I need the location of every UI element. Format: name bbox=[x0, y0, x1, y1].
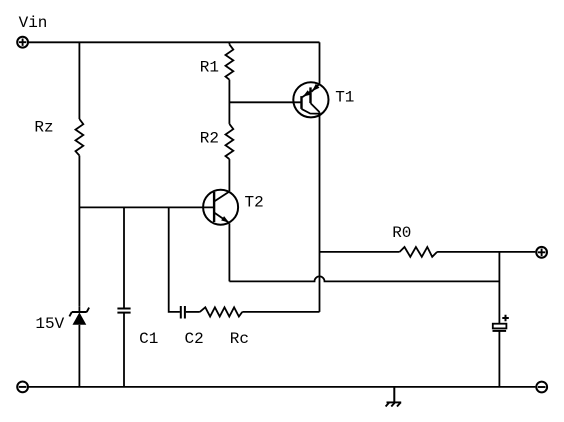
wire R1 top bbox=[228, 42, 230, 44]
wire zener top stub bbox=[78, 307, 80, 312]
terminal input positive bbox=[17, 37, 28, 48]
wire C1 lower bbox=[123, 314, 125, 387]
svg-text:Vin: Vin bbox=[19, 14, 48, 32]
wire emitter horizontal with hop bbox=[229, 276, 499, 281]
svg-text:C2: C2 bbox=[185, 330, 204, 348]
transistor T1 bbox=[293, 82, 328, 117]
svg-text:R1: R1 bbox=[200, 59, 219, 77]
resistor R1 bbox=[226, 44, 234, 79]
wire T2 base line bbox=[79, 206, 214, 208]
wire cap to bottom rail bbox=[498, 331, 500, 387]
wire bottom rail bbox=[29, 386, 536, 388]
wire top rail bbox=[29, 41, 320, 43]
terminal bottom right negative bbox=[536, 382, 547, 393]
wire R2 to T2 collector bbox=[228, 159, 230, 191]
resistor R0 bbox=[400, 247, 438, 257]
wire T1 emitter drop bbox=[319, 42, 321, 84]
svg-text:R2: R2 bbox=[200, 130, 219, 148]
wire T1 base bbox=[229, 101, 301, 103]
wire left branch upper bbox=[78, 42, 80, 119]
wire C2 branch vertical bbox=[169, 207, 180, 312]
capacitor C1 bbox=[117, 309, 130, 313]
capacitor C3 electrolytic bbox=[493, 315, 509, 331]
ground bbox=[386, 387, 402, 407]
resistor Rc bbox=[200, 307, 243, 316]
wire output cap drop bbox=[498, 252, 500, 324]
svg-text:T2: T2 bbox=[245, 194, 264, 212]
resistor Rz bbox=[76, 119, 84, 156]
svg-text:Rc: Rc bbox=[230, 330, 249, 348]
svg-text:15V: 15V bbox=[35, 315, 64, 333]
wire C1 upper bbox=[123, 207, 125, 307]
wire R1-R2 link bbox=[228, 80, 230, 124]
wire left branch lower bbox=[78, 156, 80, 307]
terminal bottom left negative bbox=[17, 382, 28, 393]
capacitor C2 bbox=[181, 306, 185, 319]
wire zener to bottom rail bbox=[78, 325, 80, 387]
svg-text:T1: T1 bbox=[335, 89, 354, 107]
wire C2 to Rc bbox=[186, 311, 200, 313]
zener diode 15V bbox=[69, 308, 89, 325]
wire output line right bbox=[437, 251, 535, 253]
svg-text:C1: C1 bbox=[139, 330, 158, 348]
wire T2 emitter down bbox=[228, 223, 230, 281]
wire output line left bbox=[320, 251, 400, 253]
svg-text:R0: R0 bbox=[392, 224, 411, 242]
wire T1 collector bbox=[319, 112, 321, 312]
resistor R2 bbox=[226, 124, 234, 159]
terminal output positive bbox=[536, 247, 547, 258]
transistor T2 bbox=[203, 190, 238, 225]
wire Rc to collector line bbox=[242, 311, 319, 313]
svg-text:Rz: Rz bbox=[34, 119, 53, 137]
